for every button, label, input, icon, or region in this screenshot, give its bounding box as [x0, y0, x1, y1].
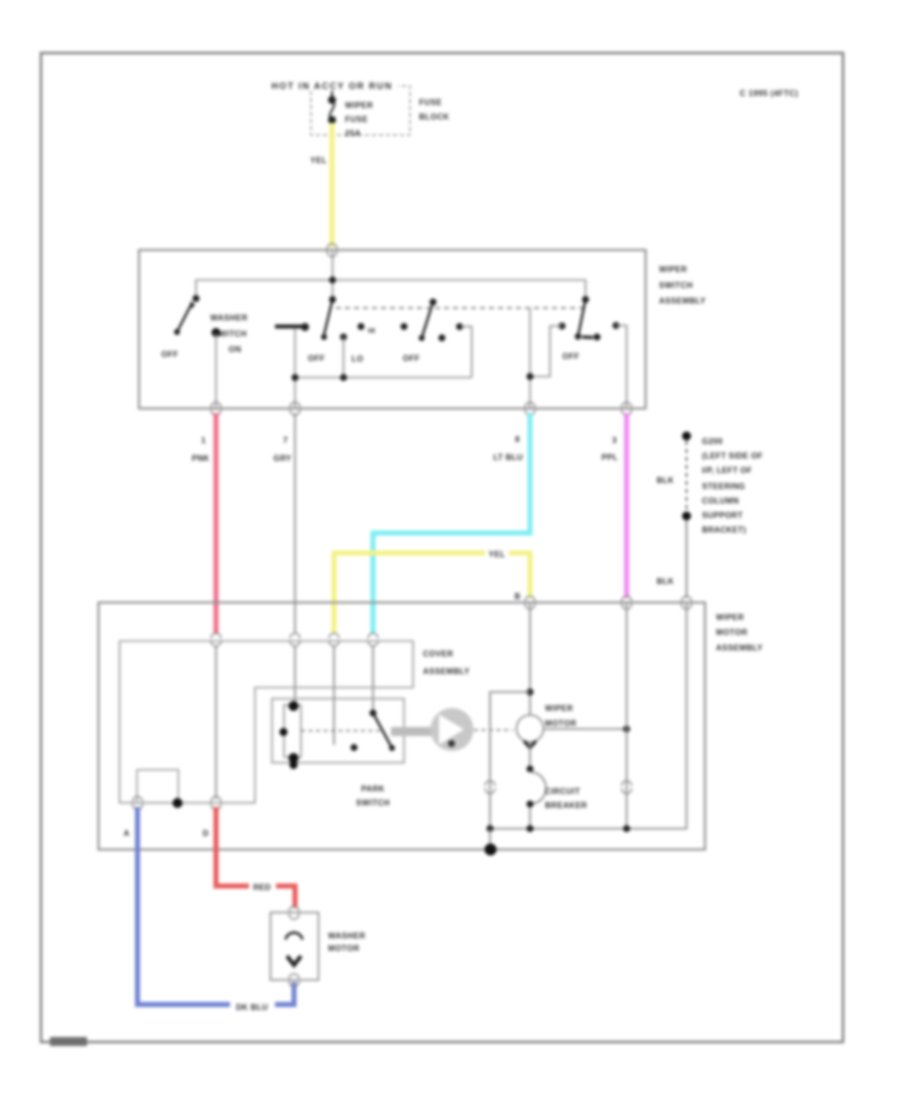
svg-text:3: 3 — [612, 436, 617, 445]
svg-text:C 1995 (4FTC): C 1995 (4FTC) — [740, 89, 799, 98]
svg-text:MOTOR: MOTOR — [545, 719, 577, 728]
svg-text:B: B — [514, 592, 520, 601]
svg-text:YEL: YEL — [310, 156, 327, 165]
svg-text:OFF: OFF — [403, 354, 420, 363]
svg-text:OFF: OFF — [562, 352, 579, 361]
svg-text:WIPER: WIPER — [659, 265, 687, 274]
svg-text:HI: HI — [368, 328, 375, 335]
svg-text:ON: ON — [229, 345, 242, 354]
svg-text:G200: G200 — [702, 437, 723, 446]
svg-text:25A: 25A — [345, 129, 361, 138]
svg-text:SWITCH: SWITCH — [356, 799, 390, 808]
svg-text:BLOCK: BLOCK — [419, 113, 449, 122]
svg-text:MOTOR: MOTOR — [716, 628, 748, 637]
svg-text:8: 8 — [515, 435, 520, 444]
svg-text:FUSE: FUSE — [419, 98, 442, 107]
svg-text:RED: RED — [253, 883, 271, 892]
svg-text:OFF: OFF — [308, 354, 325, 363]
svg-text:SWITCH: SWITCH — [659, 281, 693, 290]
svg-text:BREAKER: BREAKER — [545, 801, 587, 810]
svg-text:CIRCUIT: CIRCUIT — [545, 787, 580, 796]
svg-text:OFF: OFF — [161, 350, 178, 359]
svg-text:WIPER: WIPER — [716, 613, 744, 622]
svg-text:LT BLU: LT BLU — [493, 453, 523, 462]
svg-text:BLK: BLK — [657, 577, 674, 586]
svg-text:STEERING: STEERING — [702, 482, 745, 491]
svg-text:PNK: PNK — [192, 454, 210, 463]
svg-text:LO: LO — [352, 355, 364, 364]
svg-text:D: D — [203, 829, 209, 838]
svg-text:ASSEMBLY: ASSEMBLY — [659, 297, 706, 306]
svg-text:BRACKET): BRACKET) — [702, 526, 746, 535]
svg-text:WIPER: WIPER — [345, 101, 373, 110]
svg-text:ASSEMBLY: ASSEMBLY — [423, 667, 470, 676]
svg-text:I/P, LEFT OF: I/P, LEFT OF — [702, 466, 752, 475]
svg-text:7: 7 — [283, 436, 288, 445]
svg-text:MOTOR: MOTOR — [328, 944, 360, 953]
svg-text:ASSEMBLY: ASSEMBLY — [716, 644, 763, 653]
svg-text:FUSE: FUSE — [345, 115, 368, 124]
svg-text:HOT IN ACCY OR RUN: HOT IN ACCY OR RUN — [271, 81, 392, 91]
svg-text:WASHER: WASHER — [210, 314, 248, 323]
svg-text:YEL: YEL — [489, 550, 506, 559]
svg-text:PARK: PARK — [361, 785, 385, 794]
svg-text:BLK: BLK — [657, 476, 674, 485]
svg-text:PPL: PPL — [602, 453, 618, 462]
svg-text:WASHER: WASHER — [328, 932, 366, 941]
svg-text:GRY: GRY — [274, 454, 292, 463]
svg-text:(LEFT SIDE OF: (LEFT SIDE OF — [702, 452, 763, 461]
svg-text:COLUMN: COLUMN — [702, 497, 739, 506]
svg-text:DK BLU: DK BLU — [236, 1003, 268, 1012]
svg-text:A: A — [124, 829, 130, 838]
svg-text:SUPPORT: SUPPORT — [702, 511, 743, 520]
svg-text:COVER: COVER — [423, 650, 453, 659]
svg-text:WIPER: WIPER — [545, 704, 573, 713]
svg-text:1: 1 — [201, 436, 206, 445]
